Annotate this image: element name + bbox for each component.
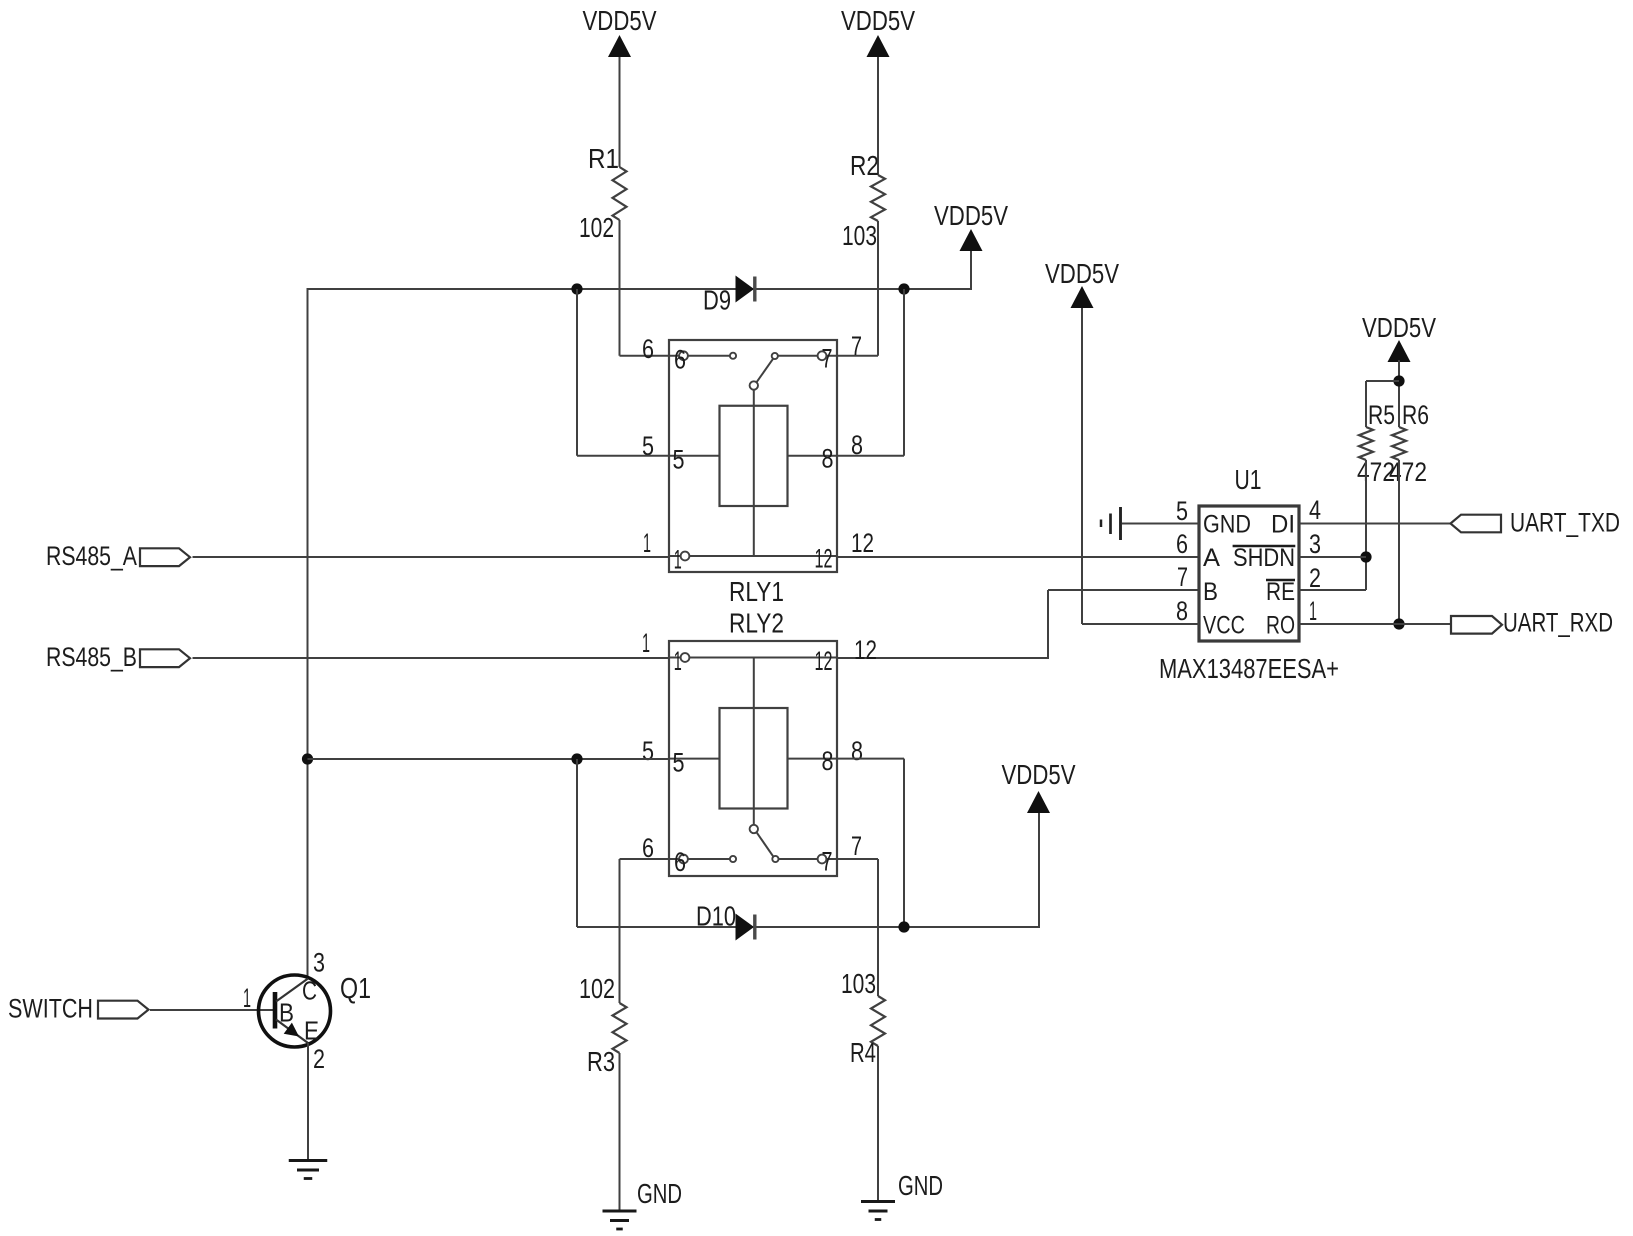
svg-text:R3: R3 [587, 1046, 615, 1077]
node junction D10 rail / RLY2 pin8 riser [898, 921, 909, 932]
RLY1 pin 6 contact [669, 351, 736, 360]
transistor Q1 [259, 975, 331, 1047]
U1 pin name DI [1271, 511, 1295, 539]
label GND at R4 [898, 1170, 943, 1201]
relay RLY1 body [669, 340, 837, 572]
RLY1 pin number 12 outside [851, 528, 874, 558]
wire RS485_A to RLY1 pin1 [193, 556, 671, 558]
power VDD5V above R2 [841, 5, 915, 57]
RLY1 pin 8 internal [788, 455, 838, 457]
svg-text:1: 1 [643, 528, 651, 558]
wire VDD5V to R1 [619, 57, 621, 167]
RLY2 pin 8 internal [788, 758, 838, 760]
svg-text:R5: R5 [1368, 400, 1395, 430]
U1 pin number 5 [1176, 496, 1188, 526]
wire RLY2 pin5 net [308, 758, 671, 760]
RLY2 switch arm [750, 825, 779, 862]
label R5 [1368, 400, 1395, 430]
U1 pin number 8 [1176, 596, 1188, 626]
svg-text:3: 3 [313, 948, 325, 978]
svg-text:7: 7 [851, 331, 862, 361]
Q1 pin number 2 [313, 1044, 325, 1074]
svg-text:MAX13487EESA+: MAX13487EESA+ [1159, 653, 1339, 684]
U1 pin name SHDN [1233, 544, 1296, 572]
RLY1 pin number 8 inside [822, 444, 834, 474]
U1 pin name VCC [1203, 612, 1245, 640]
label R6 [1402, 400, 1429, 430]
RLY1 pin number 5 outside [642, 431, 654, 461]
svg-text:VDD5V: VDD5V [1045, 258, 1119, 289]
svg-text:6: 6 [642, 334, 654, 364]
svg-text:6: 6 [1176, 529, 1188, 559]
label R3 [587, 1046, 615, 1077]
resistor R2 [871, 175, 885, 221]
label GND at R3 [637, 1178, 682, 1209]
svg-text:8: 8 [822, 444, 834, 474]
U1 pin name RO [1266, 612, 1295, 640]
RLY2 pin number 12 inside [815, 646, 833, 676]
power VDD5V above D10 rail [1002, 759, 1076, 813]
RLY1 pin number 1 outside [643, 528, 651, 558]
label R4 value 103 [841, 968, 876, 999]
svg-text:VDD5V: VDD5V [934, 200, 1008, 231]
wire U1 pin 2 RE [1299, 589, 1366, 591]
svg-text:5: 5 [673, 748, 685, 778]
wire R6 bottom to RO line [1398, 460, 1400, 624]
svg-text:U1: U1 [1235, 464, 1262, 495]
svg-text:RLY1: RLY1 [729, 576, 784, 607]
svg-text:7: 7 [822, 344, 833, 374]
wire RS485_B to RLY2 pin1 [193, 657, 671, 659]
svg-text:RS485_A: RS485_A [46, 541, 137, 571]
power VDD5V above R6 [1362, 312, 1436, 362]
Q1 pin number 1 [243, 983, 251, 1013]
svg-text:8: 8 [1176, 596, 1188, 626]
svg-text:1: 1 [674, 545, 682, 575]
wire U1 pin 3 SHDN [1299, 556, 1366, 558]
label RS485_A [46, 541, 137, 571]
wire top rail VDD5V net (y=289) [308, 288, 972, 290]
svg-text:7: 7 [822, 847, 833, 877]
RLY1 coil [720, 390, 788, 556]
U1 pin name GND [1203, 511, 1251, 539]
U1 pin number 7 [1177, 562, 1188, 592]
RLY2 pin number 1 outside [642, 628, 650, 658]
svg-text:472: 472 [1389, 457, 1427, 487]
wire VDD5V to U1 VCC pin 8 [1082, 308, 1199, 624]
resistor R5 [1359, 427, 1373, 460]
node junction R5 / U1 SHDN pin 3 [1360, 551, 1371, 562]
wire RLY1 pin12 to U1 pin A [836, 556, 1199, 558]
svg-text:UART_TXD: UART_TXD [1510, 508, 1620, 538]
label UART_RXD [1503, 608, 1613, 638]
Q1 pin number 3 [313, 948, 325, 978]
RLY2 pin number 7 inside [822, 847, 833, 877]
svg-text:R1: R1 [588, 143, 619, 174]
label R1 value 102 [579, 212, 614, 243]
RLY1 pin number 7 inside [822, 344, 833, 374]
svg-text:2: 2 [1309, 563, 1321, 593]
svg-text:D10: D10 [696, 901, 736, 932]
power VDD5V top-right of rail [934, 200, 1008, 251]
label R2 value 103 [842, 220, 877, 251]
port RS485_A [140, 548, 190, 566]
wire left vertical x=307.5 (top rail to Q1 collector) [307, 288, 309, 978]
U1 pin number 6 [1176, 529, 1188, 559]
svg-text:6: 6 [674, 345, 686, 375]
RLY2 pin 7 contact [779, 855, 838, 864]
wire R5 bottom to SHDN/RE [1365, 460, 1367, 590]
wire U1 GND pin 5 [1122, 523, 1199, 525]
RLY2 pin number 5 inside [673, 748, 685, 778]
svg-text:RE: RE [1266, 578, 1295, 606]
RLY1 pin 5 internal [669, 455, 720, 457]
svg-text:8: 8 [822, 746, 834, 776]
RLY1 pin number 8 outside [851, 430, 863, 460]
label MAX13487EESA+ [1159, 653, 1339, 684]
label Q1 [340, 973, 371, 1005]
resistor R4 [871, 996, 885, 1046]
IC U1 body [1199, 506, 1299, 641]
svg-text:2: 2 [313, 1044, 325, 1074]
node junction R2 bottom / RLY1 pin8 riser [898, 283, 909, 294]
label R2 [850, 150, 879, 181]
wire D10 rail (y=927) [577, 926, 1039, 928]
wire R4 to GND [877, 1046, 879, 1200]
RLY1 pin number 6 outside [642, 334, 654, 364]
wire R3 to GND [619, 1053, 621, 1210]
wire R2 to RLY1 pin7 [836, 221, 878, 356]
wire RLY1 pin8 to top rail [836, 289, 904, 456]
RLY2 pin number 7 outside [851, 831, 862, 861]
svg-text:DI: DI [1271, 511, 1295, 539]
wire U1 DI pin 4 to UART_TXD [1299, 523, 1451, 525]
svg-text:5: 5 [673, 445, 685, 475]
RLY2 pin 6 contact [669, 855, 736, 864]
svg-text:VCC: VCC [1203, 612, 1245, 640]
wire D10 rail riser to VDD5V [1038, 812, 1040, 928]
svg-text:UART_RXD: UART_RXD [1503, 608, 1613, 638]
U1 pin name RE [1266, 578, 1295, 606]
svg-text:A: A [1203, 544, 1220, 572]
node junction R5/R6 top [1393, 375, 1404, 386]
wire SWITCH to Q1 base [150, 1009, 273, 1011]
relay RLY2 body [669, 641, 837, 876]
RLY2 pin 1 / pin 12 internal [669, 653, 837, 662]
label RLY1 [729, 576, 784, 607]
svg-text:GND: GND [637, 1178, 682, 1209]
svg-text:VDD5V: VDD5V [1002, 759, 1076, 790]
svg-text:3: 3 [1309, 529, 1321, 559]
U1 pin number 3 [1309, 529, 1321, 559]
svg-text:RS485_B: RS485_B [46, 642, 137, 672]
label SWITCH [8, 994, 93, 1024]
label RLY2 [729, 608, 784, 639]
svg-text:Q1: Q1 [340, 973, 371, 1005]
wire VDD5V to R2 [877, 57, 879, 175]
U1 pin name A [1203, 544, 1220, 572]
label R6 value 472 [1389, 457, 1427, 487]
RLY1 pin number 6 inside [674, 345, 686, 375]
svg-text:1: 1 [243, 983, 251, 1013]
wire VDD5V to R6 top [1398, 360, 1400, 427]
svg-text:4: 4 [1309, 495, 1321, 525]
RLY1 pin number 5 inside [673, 445, 685, 475]
svg-text:C: C [302, 976, 317, 1006]
svg-text:102: 102 [579, 973, 615, 1004]
svg-text:103: 103 [841, 968, 876, 999]
U1 pin number 4 [1309, 495, 1321, 525]
RLY1 pin number 12 inside [815, 544, 833, 574]
label R5 value 472 [1357, 457, 1395, 487]
U1 pin name B [1203, 578, 1218, 606]
label D9 [703, 285, 731, 316]
svg-text:103: 103 [842, 220, 877, 251]
wire U1 RO pin 1 to UART_RXD [1299, 623, 1451, 625]
wire top rail riser to VDD5V arrow [970, 250, 972, 290]
Q1 pin label B [279, 998, 294, 1028]
label R3 value 102 [579, 973, 615, 1004]
wire R5 top link [1366, 381, 1399, 427]
svg-text:R4: R4 [850, 1037, 876, 1068]
label U1 [1235, 464, 1262, 495]
node junction R1 bottom / RLY1 pin5 riser [571, 283, 582, 294]
label R1 [588, 143, 619, 174]
svg-text:7: 7 [851, 831, 862, 861]
svg-text:12: 12 [815, 544, 833, 574]
port UART_RXD [1451, 616, 1502, 634]
wire branch down to D10 rail [576, 759, 578, 927]
svg-text:RO: RO [1266, 612, 1295, 640]
svg-text:GND: GND [1203, 511, 1251, 539]
svg-text:VDD5V: VDD5V [583, 5, 657, 36]
node junction RLY2 pin5 / D10 branch [571, 753, 582, 764]
RLY2 pin number 6 outside [642, 833, 654, 863]
svg-text:SWITCH: SWITCH [8, 994, 93, 1024]
RLY2 pin 5 internal [669, 758, 720, 760]
svg-text:B: B [1203, 578, 1218, 606]
svg-text:1: 1 [674, 646, 682, 676]
svg-text:5: 5 [1176, 496, 1188, 526]
label D10 [696, 901, 736, 932]
svg-text:1: 1 [642, 628, 650, 658]
node junction R6 / U1 RO pin 1 [1393, 618, 1404, 629]
svg-text:B: B [279, 998, 294, 1028]
wire RLY2 pin7 to R4 [836, 859, 878, 996]
resistor R3 [613, 1003, 627, 1053]
RLY2 pin number 6 inside [674, 847, 686, 877]
Q1 pin label E [304, 1016, 319, 1046]
label RS485_B [46, 642, 137, 672]
svg-text:GND: GND [898, 1170, 943, 1201]
svg-text:R6: R6 [1402, 400, 1429, 430]
RLY1 pin 7 contact [778, 351, 837, 360]
svg-text:SHDN: SHDN [1233, 544, 1295, 572]
svg-text:RLY2: RLY2 [729, 608, 784, 639]
U1 pin number 1 [1309, 596, 1317, 626]
RLY1 pin 1 / pin 12 internal [669, 552, 837, 561]
svg-text:D9: D9 [703, 285, 731, 316]
RLY2 pin number 12 outside [854, 635, 877, 665]
port UART_TXD [1451, 515, 1502, 533]
svg-text:VDD5V: VDD5V [1362, 312, 1436, 343]
diode D10 [736, 914, 755, 941]
wire R1 to RLY1 pin6 [620, 220, 671, 356]
svg-text:12: 12 [851, 528, 874, 558]
ground sideways at U1 pin5 [1101, 507, 1121, 540]
port RS485_B [140, 649, 190, 667]
resistor R1 [613, 167, 627, 220]
wire RLY2 pin12 to U1 pin B [836, 590, 1199, 659]
RLY2 pin number 1 inside [674, 646, 682, 676]
RLY2 pin number 8 inside [822, 746, 834, 776]
RLY1 pin number 7 outside [851, 331, 862, 361]
port SWITCH [98, 1001, 149, 1019]
svg-text:7: 7 [1177, 562, 1188, 592]
RLY2 pin number 5 outside [642, 736, 654, 766]
U1 pin number 2 [1309, 563, 1321, 593]
diode D9 [736, 276, 755, 303]
wire Q1 emitter to GND [307, 1043, 309, 1160]
svg-text:12: 12 [854, 635, 877, 665]
svg-text:6: 6 [674, 847, 686, 877]
svg-text:E: E [304, 1016, 319, 1046]
ground GND at Q1 [289, 1161, 328, 1179]
Q1 pin label C [302, 976, 317, 1006]
ground GND at R4 [861, 1202, 895, 1220]
RLY1 switch arm [750, 353, 778, 390]
svg-text:102: 102 [579, 212, 614, 243]
wire RLY2 pin6 to R3 [620, 859, 671, 1003]
svg-text:8: 8 [851, 736, 863, 766]
wire RLY1 pin5 to top rail [577, 289, 670, 456]
ground GND at R3 [603, 1211, 637, 1229]
RLY2 pin number 8 outside [851, 736, 863, 766]
svg-text:R2: R2 [850, 150, 879, 181]
power VDD5V above U1 VCC [1045, 258, 1119, 308]
svg-text:VDD5V: VDD5V [841, 5, 915, 36]
svg-text:1: 1 [1309, 596, 1317, 626]
RLY1 pin number 1 inside [674, 545, 682, 575]
svg-text:12: 12 [815, 646, 833, 676]
node junction left rail / RLY2 pin5 wire [302, 753, 313, 764]
label UART_TXD [1510, 508, 1620, 538]
RLY2 coil [720, 658, 788, 826]
power VDD5V above R1 [583, 5, 657, 57]
resistor R6 [1392, 427, 1406, 460]
wire RLY2 pin8 to D10 rail [836, 759, 904, 927]
svg-text:5: 5 [642, 736, 654, 766]
label R4 [850, 1037, 876, 1068]
